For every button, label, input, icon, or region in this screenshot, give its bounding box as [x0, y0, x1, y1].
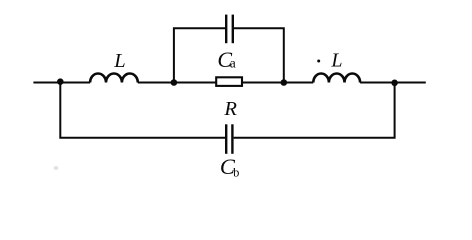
svg-text:R: R — [223, 98, 237, 120]
svg-text:Cb: Cb — [220, 154, 239, 179]
node: right outer junction — [391, 80, 398, 87]
wire: right inductor to right terminal — [360, 82, 426, 84]
node: inner left junction — [171, 79, 178, 86]
wire: left inductor to resistor — [138, 82, 216, 84]
inductor L2 (right) — [313, 74, 360, 83]
stray dot before right L label — [317, 60, 320, 63]
wire: top loop left vertical — [174, 28, 225, 82]
svg-text:L: L — [330, 50, 342, 72]
resistor R — [216, 77, 242, 86]
wire: bottom loop left vertical — [60, 83, 225, 138]
wire: bottom loop right side — [234, 83, 395, 138]
capacitor C_b plates — [225, 124, 227, 154]
capacitor C_a plates — [225, 15, 227, 44]
svg-text:L: L — [113, 50, 125, 72]
node: inner right junction — [281, 79, 288, 86]
svg-text:Ca: Ca — [217, 47, 235, 72]
wire: top loop right side — [234, 28, 284, 82]
node: left outer junction — [57, 78, 64, 85]
inductor L1 (left) — [90, 73, 138, 82]
wire: left terminal to left inductor — [33, 82, 90, 84]
wire: resistor to right inductor — [242, 82, 313, 84]
